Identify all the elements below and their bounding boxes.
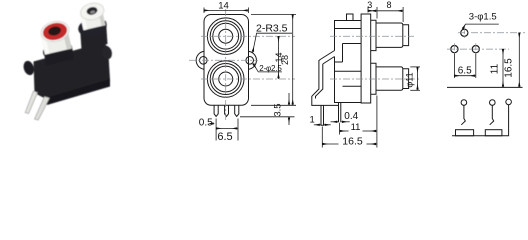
bottom jack circles [207,61,244,98]
schematic left box [456,130,474,136]
side body block [335,21,362,103]
svg-text:6.5: 6.5 [458,66,472,77]
pin 1 [214,105,218,116]
svg-text:11: 11 [351,122,361,133]
photo: right jack white cylinder [79,8,105,31]
photo: metal leg 2 [35,97,50,121]
photo: right jack top face [79,1,106,22]
dim 3.5 extension at pin tips [240,116,295,118]
svg-text:3: 3 [367,0,372,10]
schematic terminal mid [490,100,496,106]
svg-text:0.4: 0.4 [344,111,358,122]
holes bottom center line [447,48,509,50]
side top tab [347,14,354,21]
left ear hole [200,57,208,65]
right ear hole [246,57,254,65]
schematic terminal left [461,100,467,106]
side view dimensions [314,7,420,148]
photo: black body plate [34,43,111,100]
photo: body left ear [22,60,36,77]
dim 28 right line [292,15,294,106]
dim 16.5 line pcb [518,33,520,88]
svg-text:0.5: 0.5 [199,117,213,128]
top jack circles [207,18,244,55]
hole bottom-right [472,46,479,53]
side bottom barrel [376,67,403,90]
side top collar ring [371,20,376,50]
side view center lines [330,36,421,79]
side pin [339,103,341,123]
svg-text:16.5: 16.5 [504,58,515,78]
side top center line [330,35,414,37]
side bottom collar ring [371,63,376,94]
photo: left jack white cylinder [40,28,72,55]
hole bottom-left [451,46,458,53]
vertical center line [225,9,227,120]
side bracket leg [321,105,324,125]
side bottom barrel tip [403,69,409,89]
side top barrel tip [403,25,409,46]
photo: body right ear [101,45,114,61]
dim 3.5 line with outside arrows [288,93,290,105]
left ear bump [196,51,204,69]
schematic left contact [461,105,465,124]
leader 2-R3.5 [253,33,292,52]
pin 2 (center) [225,105,229,116]
photo: right jack black socket column [80,21,108,50]
dim 11 line pcb [502,49,504,87]
svg-text:2-R3.5: 2-R3.5 [256,23,288,35]
leader 2-phi2.5 [253,63,282,72]
front body outline [204,15,249,106]
dim 6.5 extensions [215,119,217,141]
side bracket diagonal [321,51,335,65]
photo: left jack black socket column [44,47,74,66]
dim 28 right extensions [251,14,296,16]
hole top center line [458,32,525,34]
svg-text:1: 1 [310,114,315,125]
svg-text:6.5: 6.5 [217,131,232,143]
dim 11 line [340,130,349,132]
svg-text:3-φ1.5: 3-φ1.5 [469,12,497,23]
schematic terminal right [506,99,512,105]
dim 14 right line [278,36,280,79]
dim 6.5 extensions pcb [453,54,455,79]
front view dim texts [199,0,290,143]
hole top vertical tick [463,27,465,39]
top jack horizontal center line [201,35,295,37]
schematic mid contact [490,105,494,124]
pin 3 [235,105,239,116]
dim 3/8 extensions [367,7,369,13]
photo: left jack socket ring [41,38,74,62]
right ear bump [249,51,257,69]
leader 3-phi1.5 [462,24,498,29]
side view dim texts [310,0,415,147]
dim 8 line [377,10,403,12]
ear horizontal center line [189,59,258,61]
dim 1 arrows [314,124,321,126]
side bottom center line [330,78,421,80]
svg-text:2-φ2.5: 2-φ2.5 [259,64,282,73]
side body interior lines [335,29,362,87]
front view dimensions [204,8,296,141]
dim 16.5 line [322,143,338,145]
dim 6.5 line [216,127,238,129]
side flange [361,14,371,103]
dim 0.5 leader [212,123,215,125]
photo: body bottom face [44,79,110,105]
svg-text:φ11: φ11 [405,72,415,87]
side bracket strip [312,59,339,105]
photo: right jack socket ring [76,15,108,39]
side top barrel [376,23,403,47]
photo: left jack top face with red ring [39,19,71,45]
svg-text:8: 8 [386,0,391,10]
dim 14 top line [204,9,249,11]
dim 3 line [368,10,377,12]
front view center lines [189,9,295,120]
dim phi11 line [417,67,419,90]
dim 0.4 arrows [341,121,350,123]
svg-text:14: 14 [218,0,229,11]
dim 16.5 extension [321,127,323,148]
pcb baseline [447,86,523,88]
dim 11 extensions [339,123,341,135]
svg-text:3.5: 3.5 [272,103,283,116]
hole top [461,29,468,36]
schematic right wire [452,105,509,136]
photo: metal leg 1 [25,91,37,114]
bottom jack horizontal center line [201,78,295,80]
dim phi11 extensions [410,66,420,68]
svg-text:11: 11 [490,63,501,74]
schematic right box [485,130,502,136]
dim 6.5 line pcb [454,75,475,77]
svg-text:16.5: 16.5 [342,136,363,148]
dim 14 top extensions [203,8,205,14]
holes bottom vertical ticks [453,43,455,55]
